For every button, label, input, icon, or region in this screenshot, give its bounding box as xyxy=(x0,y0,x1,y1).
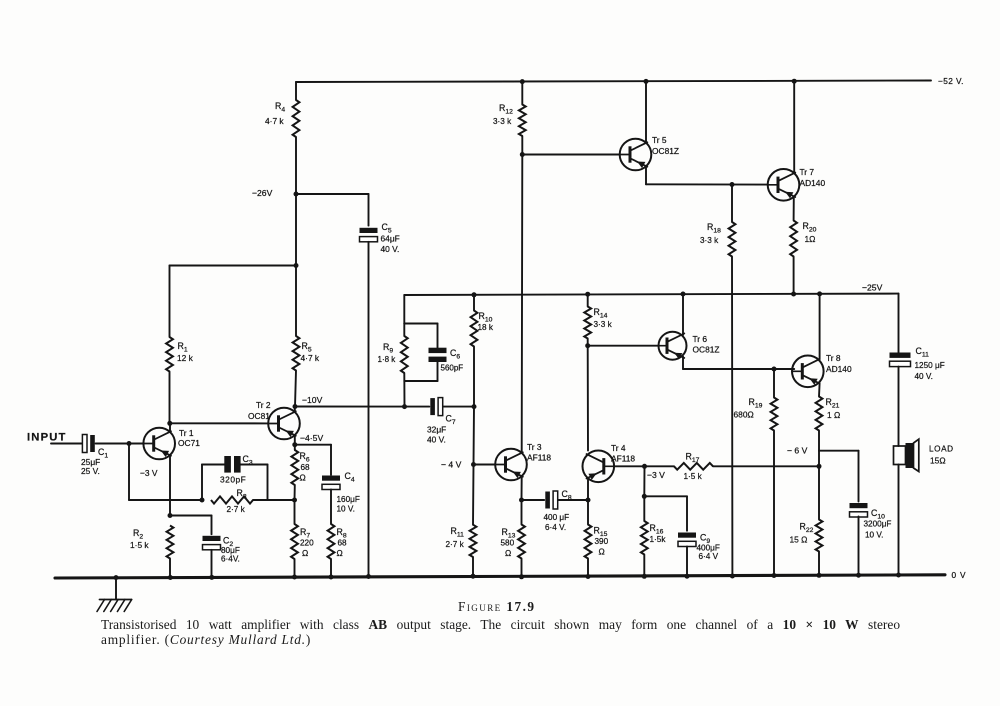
junction R20 rail xyxy=(791,292,796,297)
resistor R9 xyxy=(401,336,408,373)
label Tr8 xyxy=(826,353,852,374)
junction C9 ground xyxy=(685,574,690,579)
svg-text:AF118: AF118 xyxy=(611,454,635,464)
svg-text:−10V: −10V xyxy=(302,395,323,405)
svg-text:1·5k: 1·5k xyxy=(650,535,667,544)
svg-text:6·4V.: 6·4V. xyxy=(221,555,240,564)
junction feedback left xyxy=(200,498,205,503)
svg-text:400 μF: 400 μF xyxy=(544,513,570,522)
wire R4 top xyxy=(295,82,297,100)
label C11 value xyxy=(915,361,945,381)
svg-text:Tr 6: Tr 6 xyxy=(693,334,708,344)
wire -10V node xyxy=(295,406,405,408)
svg-text:2·7 k: 2·7 k xyxy=(446,540,465,549)
svg-text:4·7 k: 4·7 k xyxy=(265,116,284,126)
label R16 xyxy=(650,523,667,544)
wire R5 bottom xyxy=(295,371,296,407)
wire R14 bottom xyxy=(587,339,589,346)
svg-text:15 Ω: 15 Ω xyxy=(790,535,808,545)
label Tr4 xyxy=(611,443,635,464)
resistor R22 xyxy=(816,520,823,552)
wire R11 top xyxy=(472,465,475,525)
wire Tr8 collector xyxy=(819,294,821,360)
label C7 xyxy=(446,414,456,427)
svg-text:− 6 V: − 6 V xyxy=(787,446,808,456)
resistor R5 xyxy=(293,336,300,371)
svg-text:18 k: 18 k xyxy=(478,323,494,332)
label Tr3 xyxy=(527,442,551,463)
wire -6V xyxy=(819,451,859,502)
svg-text:Tr 3: Tr 3 xyxy=(527,442,542,452)
wire Tr2 collector xyxy=(294,407,296,412)
junction R17 right xyxy=(817,464,822,469)
caption line 2 xyxy=(101,632,311,648)
svg-text:15Ω: 15Ω xyxy=(930,456,946,466)
junction C2 ground xyxy=(209,575,214,580)
wire R11 bottom xyxy=(472,557,474,576)
transistor Tr2 xyxy=(268,408,300,440)
label C11 xyxy=(916,346,930,359)
wire R14 top xyxy=(587,294,589,306)
junction R12 rail xyxy=(520,79,525,84)
wire -3V down xyxy=(643,466,645,496)
wire C2 bottom xyxy=(211,550,213,578)
svg-text:4·7 k: 4·7 k xyxy=(301,353,320,363)
wire to C7 xyxy=(405,406,430,408)
label R6 xyxy=(300,451,311,483)
wire R10 bottom xyxy=(473,347,476,465)
junction R8 ground xyxy=(329,575,334,580)
svg-text:68: 68 xyxy=(301,463,311,472)
junction input-base xyxy=(127,441,132,446)
junction R16 ground xyxy=(642,574,647,579)
label R11 xyxy=(446,526,465,549)
junction Tr3 emitter xyxy=(519,498,524,503)
wire R17 right xyxy=(713,465,819,467)
label C4 value xyxy=(337,495,360,514)
wire R3 right xyxy=(253,499,295,501)
transistor Tr1 xyxy=(143,428,175,460)
label R14 xyxy=(594,307,613,329)
svg-text:−26V: −26V xyxy=(252,188,273,198)
junction Tr5 base node xyxy=(520,152,525,157)
label R1 xyxy=(177,341,194,363)
wire R12-Tr3 column xyxy=(521,155,524,453)
wire input xyxy=(51,443,82,445)
label -4.5V xyxy=(300,433,323,443)
speaker LOAD xyxy=(894,439,919,471)
label R15 xyxy=(594,526,609,557)
label Tr6 xyxy=(693,334,720,355)
svg-text:Tr 2: Tr 2 xyxy=(256,400,271,410)
terminal INPUT label xyxy=(27,432,67,444)
svg-text:− 4 V: − 4 V xyxy=(441,460,462,470)
transistor Tr4 xyxy=(583,451,615,483)
svg-text:10 V.: 10 V. xyxy=(865,531,883,540)
resistor R7 xyxy=(291,500,298,559)
svg-text:6·4 V.: 6·4 V. xyxy=(545,523,566,532)
svg-text:2·7 k: 2·7 k xyxy=(227,505,246,514)
label Tr1 xyxy=(178,428,200,448)
resistor R6 xyxy=(291,445,298,485)
wire Tr6 collector xyxy=(682,294,684,335)
wire emitter to C2 xyxy=(170,516,212,535)
svg-text:1 Ω: 1 Ω xyxy=(827,410,840,420)
transistor Tr3 xyxy=(495,449,527,481)
wire Tr5 collector xyxy=(645,81,647,142)
capacitor C5 xyxy=(360,228,378,242)
label -6V xyxy=(787,446,808,456)
svg-text:Ω: Ω xyxy=(302,548,308,558)
wire R7 bottom xyxy=(294,559,296,577)
resistor R8 xyxy=(328,524,335,559)
label C6 xyxy=(450,348,460,361)
junction Tr1 collector xyxy=(167,421,172,426)
junction Tr8 collector rail xyxy=(817,291,822,296)
wire R12 bottom xyxy=(521,136,523,155)
wire Tr3 base xyxy=(474,464,496,466)
wire R5 top xyxy=(295,266,297,337)
wire Tr1 emitter xyxy=(169,455,171,515)
label R7 xyxy=(300,527,314,558)
junction R19 top xyxy=(772,367,777,372)
svg-text:3200μF: 3200μF xyxy=(864,520,892,529)
wire R13 xyxy=(521,500,523,577)
svg-text:Tr 7: Tr 7 xyxy=(800,167,815,177)
wire Tr6 emitter xyxy=(683,356,794,369)
label C4 xyxy=(345,471,355,484)
wire R9 join xyxy=(403,324,405,407)
junction speaker ground xyxy=(896,573,901,578)
svg-text:−4·5V: −4·5V xyxy=(300,433,323,443)
capacitor C6 xyxy=(429,348,447,362)
label C5 xyxy=(382,222,392,235)
resistor R17 xyxy=(674,463,713,470)
svg-text:Ω: Ω xyxy=(505,548,511,558)
wire C7 right xyxy=(444,406,474,408)
net label -52V xyxy=(938,76,964,86)
net label 0V xyxy=(952,570,967,580)
wire Tr1-Tr2 base xyxy=(170,422,268,424)
wire emitter to C4 xyxy=(295,445,331,475)
svg-text:AD140: AD140 xyxy=(826,364,852,374)
wire R1 top xyxy=(170,266,297,338)
wire speaker to ground xyxy=(898,465,900,576)
svg-text:Tr 8: Tr 8 xyxy=(826,353,841,363)
svg-text:580: 580 xyxy=(501,539,515,548)
label Tr5 xyxy=(652,135,679,156)
wire R4 bottom xyxy=(295,137,297,194)
svg-text:64μF: 64μF xyxy=(381,234,400,244)
svg-text:−3 V: −3 V xyxy=(140,468,158,478)
wire C5 down xyxy=(368,242,370,577)
wire C6 top xyxy=(404,324,437,348)
svg-text:OC71: OC71 xyxy=(178,438,200,448)
wire R9 top xyxy=(403,295,405,324)
junction C7-R10 xyxy=(472,404,477,409)
svg-text:68: 68 xyxy=(338,539,348,548)
label R8 xyxy=(337,527,348,558)
wire R6 bottom xyxy=(294,485,296,500)
transistor Tr5 xyxy=(620,139,652,171)
label R9 xyxy=(378,342,397,364)
wire R16 xyxy=(643,496,645,576)
junction Tr4 emitter xyxy=(586,498,591,503)
label C3 xyxy=(243,454,253,467)
svg-text:1Ω: 1Ω xyxy=(805,234,816,244)
wire R22 bottom xyxy=(818,552,820,576)
label C10 xyxy=(871,508,885,521)
wire C11 to speaker xyxy=(898,367,900,446)
label R18 xyxy=(700,222,721,245)
junction C5 ground xyxy=(366,574,371,579)
junction R13 ground xyxy=(519,574,524,579)
capacitor C4 xyxy=(322,476,340,490)
junction C9 tap xyxy=(642,494,647,499)
label C3 value xyxy=(220,475,246,485)
resistor R15 xyxy=(585,525,592,559)
wire C8 left xyxy=(522,499,545,501)
svg-text:10 V.: 10 V. xyxy=(337,505,355,514)
wire R12 top xyxy=(521,82,523,105)
label R12 xyxy=(493,103,513,126)
junction R10 rail xyxy=(472,292,477,297)
svg-text:1·5 k: 1·5 k xyxy=(684,472,703,481)
resistor R21 xyxy=(816,397,823,431)
wire Tr6 base xyxy=(588,345,659,347)
wire Tr2 emitter xyxy=(294,436,296,445)
wire output down xyxy=(898,294,900,353)
wire R19 column xyxy=(773,369,775,576)
wire R8 bottom xyxy=(330,559,332,577)
label R13 xyxy=(501,527,516,558)
junction R18 ground xyxy=(730,574,735,579)
label C8 value xyxy=(544,513,570,532)
svg-text:390: 390 xyxy=(595,537,609,546)
label R20 xyxy=(803,221,817,244)
junction Tr6 collector rail xyxy=(681,292,686,297)
svg-text:Tr 5: Tr 5 xyxy=(652,135,667,145)
junction Tr7 collector rail xyxy=(792,79,797,84)
svg-text:1·8 k: 1·8 k xyxy=(378,355,397,364)
resistor R4 xyxy=(293,100,300,137)
transistor Tr8 xyxy=(792,356,824,388)
svg-text:Ω: Ω xyxy=(300,473,306,483)
wire C9 branch xyxy=(644,496,687,530)
junction R9 bottom xyxy=(402,404,407,409)
label -4V xyxy=(441,460,462,470)
svg-text:1250 μF: 1250 μF xyxy=(915,361,945,370)
resistor R20 xyxy=(790,221,797,257)
wire C6 bottom xyxy=(404,362,437,381)
label Tr7 xyxy=(800,167,826,188)
resistor R13 xyxy=(518,525,525,559)
junction R19 ground xyxy=(772,573,777,578)
svg-text:INPUT: INPUT xyxy=(27,432,67,444)
capacitor C1 xyxy=(82,435,143,453)
resistor R16 xyxy=(641,521,648,555)
svg-text:−52 V.: −52 V. xyxy=(938,76,964,86)
label C1 xyxy=(98,447,108,460)
junction R11 ground xyxy=(471,574,476,579)
svg-text:OC81Z: OC81Z xyxy=(652,146,679,156)
caption line 1 xyxy=(101,617,900,633)
capacitor C9 xyxy=(678,533,696,547)
resistor R3 xyxy=(211,496,253,503)
svg-text:1·5 k: 1·5 k xyxy=(130,540,149,550)
wire Tr4 base xyxy=(614,465,644,467)
junction -4V node xyxy=(471,462,476,467)
label C9 value xyxy=(697,544,720,562)
svg-text:AF118: AF118 xyxy=(527,453,551,463)
wire C8 right xyxy=(559,499,588,501)
wire C3 box left xyxy=(202,465,224,501)
junction -10V node xyxy=(293,404,298,409)
svg-text:40 V.: 40 V. xyxy=(427,435,446,445)
svg-text:AD140: AD140 xyxy=(800,178,826,188)
svg-text:LOAD: LOAD xyxy=(929,445,954,454)
svg-text:Tr 4: Tr 4 xyxy=(611,443,626,453)
label C7 value xyxy=(427,425,446,445)
svg-text:12 k: 12 k xyxy=(177,353,194,363)
wire Tr3 emitter xyxy=(521,476,523,500)
svg-text:40 V.: 40 V. xyxy=(381,244,400,254)
svg-text:160μF: 160μF xyxy=(337,495,360,504)
junction R18 top xyxy=(730,182,735,187)
label C6 value xyxy=(441,364,464,373)
wire Tr8 emitter xyxy=(818,383,821,396)
resistor R18 xyxy=(729,222,736,257)
svg-text:−3 V: −3 V xyxy=(647,470,665,480)
wire R10 top xyxy=(473,295,475,311)
label R10 xyxy=(478,311,494,332)
label Tr2 xyxy=(248,400,271,421)
net label -25V xyxy=(862,283,883,293)
junction Tr5 collector rail xyxy=(644,79,649,84)
wire R17 left xyxy=(645,465,675,467)
svg-text:3·3 k: 3·3 k xyxy=(594,320,613,329)
capacitor C10 xyxy=(850,503,868,517)
resistor R10 xyxy=(471,311,478,347)
svg-text:220: 220 xyxy=(300,539,314,548)
wire -52V supply rail xyxy=(296,81,931,83)
wire R20 bottom xyxy=(793,257,795,295)
ground symbol xyxy=(97,577,132,611)
caption figure number xyxy=(458,599,535,615)
svg-text:Ω: Ω xyxy=(599,547,605,557)
junction Tr1 emitter xyxy=(168,513,173,518)
junction R2 ground xyxy=(168,575,173,580)
wire C3 box right xyxy=(241,465,268,501)
wire main left column xyxy=(295,194,297,266)
svg-text:Tr 1: Tr 1 xyxy=(179,428,194,438)
capacitor C3 xyxy=(224,456,240,473)
transistor Tr7 xyxy=(768,169,800,201)
label R4 xyxy=(265,101,285,126)
label R19 xyxy=(734,397,763,420)
svg-text:OC81: OC81 xyxy=(248,411,270,421)
wire Tr7 emitter xyxy=(793,197,795,221)
label R2 xyxy=(130,528,149,550)
label R17 xyxy=(684,452,703,482)
junction R14 rail xyxy=(585,292,590,297)
svg-text:6·4 V: 6·4 V xyxy=(699,552,719,561)
junction -26V xyxy=(294,192,299,197)
label C10 value xyxy=(864,520,892,540)
wire R14-Tr4 column xyxy=(587,346,589,451)
svg-text:0 V: 0 V xyxy=(952,570,967,580)
wire Tr1 collector xyxy=(169,423,171,431)
wire Tr7 collector xyxy=(793,81,795,173)
label C9 xyxy=(700,533,710,546)
label C2 xyxy=(223,536,233,549)
label LOAD xyxy=(929,445,954,466)
resistor R2 xyxy=(167,526,174,559)
svg-text:3·3 k: 3·3 k xyxy=(493,117,512,126)
label R5 xyxy=(301,341,320,363)
capacitor C7 xyxy=(430,398,442,416)
capacitor C11 xyxy=(890,353,911,367)
wire C10 bottom xyxy=(858,517,860,576)
label C8 xyxy=(562,489,572,502)
svg-text:40 V.: 40 V. xyxy=(915,372,933,381)
capacitor C2 xyxy=(203,536,221,550)
wire -25V output rail xyxy=(404,294,898,295)
label R21 xyxy=(826,397,841,420)
wire R18 column xyxy=(731,185,733,577)
svg-text:320pF: 320pF xyxy=(220,475,246,485)
wire 0V ground rail xyxy=(55,575,945,578)
svg-text:560pF: 560pF xyxy=(441,364,464,373)
svg-text:−25V: −25V xyxy=(862,283,883,293)
junction R5 top xyxy=(294,263,299,268)
svg-text:3·3 k: 3·3 k xyxy=(700,236,719,245)
wire Tr1 base down xyxy=(129,444,202,501)
svg-text:25 V.: 25 V. xyxy=(81,466,100,476)
label C5 value xyxy=(381,234,400,255)
svg-text:32μF: 32μF xyxy=(427,425,446,435)
label R3 xyxy=(227,488,247,514)
junction Tr2 emitter xyxy=(292,442,297,447)
junction C10 ground xyxy=(856,573,861,578)
junction Tr6 base node xyxy=(585,343,590,348)
svg-text:680Ω: 680Ω xyxy=(734,410,754,420)
label -10V xyxy=(302,395,323,405)
svg-text:Ω: Ω xyxy=(337,548,343,558)
junction ground-rail xyxy=(114,575,119,580)
label -3V xyxy=(647,470,665,480)
resistor R1 xyxy=(166,337,173,372)
label -26V xyxy=(252,188,273,198)
wire C9 bottom xyxy=(686,547,688,577)
wire -26V to C5 xyxy=(296,194,369,226)
wire Tr4 emitter xyxy=(587,478,589,500)
wire R15 xyxy=(587,500,589,577)
resistor R19 xyxy=(771,398,778,431)
label R22 xyxy=(790,522,814,545)
junction feedback right xyxy=(292,498,297,503)
wire C4 bottom xyxy=(330,490,332,525)
resistor R12 xyxy=(519,105,526,137)
wire Tr5 emitter xyxy=(646,166,767,184)
capacitor C8 xyxy=(545,491,557,509)
transistor Tr6 xyxy=(659,332,687,360)
label -3V xyxy=(140,468,158,478)
wire Tr5 base xyxy=(522,154,619,156)
resistor R11 xyxy=(470,525,477,557)
wire R2 bottom xyxy=(169,559,171,578)
junction -3V node xyxy=(642,464,647,469)
